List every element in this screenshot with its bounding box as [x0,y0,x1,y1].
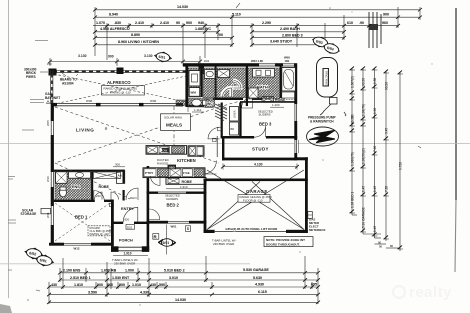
ldy bench [218,70,230,78]
water tank [317,58,338,98]
svg-text:610: 610 [347,21,353,25]
vertical dim line 5 overall 9.720 [399,72,401,251]
wc room hatch [188,99,215,108]
svg-text:1.650 RB: 1.650 RB [101,269,117,273]
svg-text:900: 900 [119,283,125,287]
svg-text:realty: realty [409,284,452,301]
dim 300 [113,166,125,168]
hall west wall (kitchen side) [221,103,223,138]
garage left wall [204,179,207,234]
svg-text:1.910: 1.910 [180,185,188,189]
stray mark [344,112,346,116]
left page edge line [8,0,10,298]
wir stripe patch [215,104,227,121]
svg-text:820: 820 [125,218,130,222]
svg-text:4.130: 4.130 [254,162,263,166]
bottom dimension block [47,256,320,304]
dim line row5 8.890 / bed3 [95,37,232,39]
svg-text:1.45: 1.45 [373,186,377,192]
entry door arc [123,207,138,222]
robe bed1 interior [94,172,121,179]
svg-text:P'TRY: P'TRY [145,171,153,175]
svg-text:STORAGE: STORAGE [21,212,37,216]
ens shower [56,172,68,184]
dim line row2 8.940 / 5.110 / 900 [95,16,420,18]
svg-text:W06: W06 [86,99,93,103]
svg-text:90.26: 90.26 [362,78,366,86]
svg-text:5.99 GARAGE: 5.99 GARAGE [362,207,366,228]
east wall window bed3 [294,104,298,121]
dim line 14.030 overall [95,9,420,11]
corridor door arc DHO [126,188,138,200]
small slash on line1 [236,3,240,8]
svg-text:STUDY: STUDY [252,147,269,152]
svg-text:1.880 WC: 1.880 WC [195,27,211,31]
svg-text:F'GE: F'GE [183,171,190,175]
bath block bottom wall segs [186,105,204,107]
svg-text:UBO: UBO [169,165,175,169]
hall/study door arc [203,161,217,175]
top dimension block [93,3,422,60]
svg-text:D01: D01 [127,225,133,229]
svg-text:1.530 ENT: 1.530 ENT [112,276,130,280]
dim texts [51,268,317,302]
shower corner [249,88,259,98]
east wall window study [294,140,298,153]
rotated dim texts [351,76,403,248]
svg-text:.90: .90 [359,21,364,25]
svg-text:430: 430 [150,283,156,287]
small horizontal ticks across lines [349,70,403,249]
robe below tub [282,92,296,98]
garage door opening line [215,230,286,232]
island bench [143,168,205,178]
dim ticks [93,8,422,47]
beam (left side vertical) [50,70,52,104]
svg-text:BED 2: BED 2 [167,203,180,208]
ens/robe divider [91,172,93,200]
ens toilet [60,188,67,197]
svg-text:14.030: 14.030 [175,298,186,302]
svg-text:90: 90 [379,245,383,249]
svg-text:BATH: BATH [257,85,268,90]
bath vanity [253,69,275,78]
dim 1.910 bed2 [166,188,206,190]
row A line (ens/rb/bed2/garage) [60,272,318,274]
svg-text:1.000: 1.000 [125,269,134,273]
svg-text:3.640 STUDY: 3.640 STUDY [270,40,293,44]
brick pier mid [117,68,124,75]
svg-text:LINEN: LINEN [233,110,237,118]
svg-text:DOORS THROUGHOUT.: DOORS THROUGHOUT. [266,242,300,246]
alfresco ceiling note box [102,86,145,96]
svg-text:230: 230 [96,194,101,198]
rooms & fixtures [21,68,326,266]
svg-text:4.930: 4.930 [255,282,264,286]
svg-text:14.030: 14.030 [177,5,188,9]
svg-text:1.98(76): 1.98(76) [362,104,366,116]
svg-text:PAVING @ -110: PAVING @ -110 [110,91,131,95]
stamp 6/93 top right [310,34,331,50]
porch front piers [111,246,119,252]
garage ceiling note box [238,195,270,203]
svg-text:METERBOX: METERBOX [309,228,325,232]
dim 1.112 leader [187,107,189,112]
bed2 top wall [147,192,207,194]
ldy east wall [201,68,203,97]
svg-text:BED 3: BED 3 [259,121,272,126]
svg-text:W06: W06 [150,99,157,103]
ubo black box [168,165,177,170]
svg-text:R/HOOD: R/HOOD [157,161,168,165]
stamp 6/91 bottom left [33,253,55,269]
svg-text:4.560 ALFRESCO: 4.560 ALFRESCO [100,27,130,31]
garage front wall right seg [286,230,308,233]
leader squiggle [320,104,331,115]
top wall window a [259,63,275,67]
ldy left column hatch [188,68,201,97]
vertical dim line 1 [351,68,353,215]
ens vanity [69,172,91,178]
extension verticals [48,282,50,304]
meter box [308,212,313,219]
hall kitchen door arc [151,176,161,186]
svg-text:5.110: 5.110 [232,13,241,17]
svg-text:NOTE: PROVIDE 2340H INT: NOTE: PROVIDE 2340H INT [266,238,305,242]
svg-text:MEALS: MEALS [166,122,182,127]
svg-text:BAYONET: BAYONET [45,96,60,100]
dim line row4 alfresco/wc/bath [95,31,218,33]
svg-text:2.100 ENS: 2.100 ENS [63,269,81,273]
ridge dash line [173,106,175,145]
wc toilet [192,99,202,106]
left wall window bed1 [50,206,54,225]
bed1 top wall [54,200,95,202]
porch right wall [147,223,150,251]
tank & compass [307,58,339,147]
bed1 door arc [94,191,105,201]
svg-text:ROBE: ROBE [99,185,110,189]
bed2 front window W01 [168,221,189,224]
vertical dim line 3 [374,68,376,238]
beam (top) with dashes [50,69,204,71]
top wall window b [283,63,294,67]
svg-text:90: 90 [176,21,180,25]
linen column boxes [230,107,239,122]
svg-text:W01: W01 [171,225,177,229]
svg-text:SLIDERS: SLIDERS [166,197,178,201]
small S mark [186,226,191,232]
svg-text:180: 180 [285,59,290,63]
svg-text:W10: W10 [46,176,50,182]
bed2 top slider gap [158,191,186,194]
entry west wall [111,200,113,210]
svg-text:BED 1: BED 1 [75,215,88,220]
washing machine [189,88,200,97]
svg-text:230 BWK OVER: 230 BWK OVER [213,242,234,246]
svg-text:1.010: 1.010 [132,283,141,287]
svg-text:2.410: 2.410 [135,21,144,25]
watermark [393,284,452,301]
entry/porch wall with door gap [111,222,123,224]
svg-text:PIERS: PIERS [26,75,36,79]
svg-text:WM: WM [191,90,197,94]
svg-text:1.112: 1.112 [194,108,202,112]
svg-text:SLIDERS: SLIDERS [259,113,271,117]
svg-text:1.98(50)(2): 1.98(50)(2) [362,148,366,164]
svg-text:ALFRESCO: ALFRESCO [107,80,131,85]
left wall window W05 [50,121,54,135]
svg-text:1.45: 1.45 [373,226,377,232]
svg-text:W03 1.80: W03 1.80 [251,59,263,63]
svg-text:900: 900 [186,21,192,25]
faint horizontal scan line upper [0,143,470,145]
bed2 west wall [147,192,150,222]
svg-text:8.890: 8.890 [131,33,140,37]
svg-text:BR: BR [231,127,235,131]
bed2 front wall [147,221,207,224]
svg-text:DW: DW [163,148,168,152]
svg-text:1.90: 1.90 [373,108,377,114]
svg-text:1.98 BED 1: 1.98 BED 1 [351,191,355,208]
svg-text:2.800 BED 3: 2.800 BED 3 [282,33,303,37]
svg-text:1.910: 1.910 [124,251,132,255]
robe slider box [262,96,274,101]
study left wall [222,139,224,161]
study door gap arc [254,126,266,137]
svg-text:KITCHEN: KITCHEN [177,158,196,163]
robe door arcs [95,192,103,200]
svg-text:ROBE: ROBE [275,98,286,102]
left outer wall [51,103,54,246]
svg-text:700: 700 [217,33,223,37]
row E line overall 14.030 [49,301,318,303]
kitchen wall hatch [176,100,186,106]
ens top wall [54,170,125,172]
faint horizontal scan line lower [0,263,250,265]
svg-text:230 BWK OVER: 230 BWK OVER [114,261,135,265]
bed1 east / porch left wall [111,200,114,247]
svg-text:2.290: 2.290 [262,21,271,25]
svg-text:.830: .830 [114,21,121,25]
svg-text:4.85x(2).85 AUTO PANEL LIFT DO: 4.85x(2).85 AUTO PANEL LIFT DOOR [225,227,278,231]
svg-text:860: 860 [107,283,113,287]
ens hatch [55,171,91,199]
svg-text:940: 940 [198,21,204,25]
svg-text:900: 900 [383,13,389,17]
svg-text:900: 900 [108,55,114,59]
stamp 6/94 top right [321,40,342,56]
svg-text:6.115: 6.115 [258,290,267,294]
svg-text:ENTRY: ENTRY [121,206,134,211]
svg-text:150: 150 [47,62,52,66]
svg-text:5.010 BED 2: 5.010 BED 2 [164,269,185,273]
svg-text:LIVING: LIVING [76,128,94,133]
svg-text:695: 695 [311,282,317,286]
svg-text:FLOOR @ -110: FLOOR @ -110 [243,198,263,202]
compass north point [307,127,339,146]
extension verticals [94,7,96,56]
svg-text:2.400 BATH: 2.400 BATH [280,27,300,31]
svg-text:ROBE: ROBE [182,180,193,184]
svg-text:2.410: 2.410 [160,21,169,25]
svg-text:PORCH: PORCH [119,238,133,242]
bath block left wall [185,66,188,107]
svg-text:900: 900 [97,283,103,287]
svg-text:90: 90 [351,114,355,118]
study bottom wall [222,158,297,161]
svg-text:4.330: 4.330 [140,290,149,294]
svg-text:ENS: ENS [72,185,80,189]
svg-text:1.810: 1.810 [74,283,83,287]
wc door arc [205,99,214,108]
porch front step lines [118,246,142,248]
bottom-left corner smudge [0,304,12,313]
pier dim line 3.130 / 3.130 [48,56,202,66]
garage dim 4.130 [223,166,297,168]
svg-text:8.960 LIVING / KITCHEN: 8.960 LIVING / KITCHEN [118,40,159,44]
garage cross bracing [207,170,304,230]
svg-text:430: 430 [51,283,57,287]
hall door arc to kitchen [208,127,220,138]
svg-text:8.940: 8.940 [109,13,118,17]
svg-text:& RAINSWITCH: & RAINSWITCH [310,119,334,123]
svg-text:6/91: 6/91 [163,241,170,245]
note box [264,237,313,247]
right dimension block [344,67,421,252]
garage top wall [204,179,308,182]
svg-text:1.980(76): 1.980(76) [351,152,355,166]
vertical dim line 4 [385,71,387,241]
porch dim 1.910 [113,254,148,256]
garage front wall left seg [204,230,215,233]
svg-text:GARAGE: GARAGE [246,189,268,194]
svg-text:5.530 GARAGE: 5.530 GARAGE [243,268,269,272]
dim line row3 small increments [93,25,398,27]
bed1 front wall [49,243,112,246]
svg-text:3.130: 3.130 [144,54,153,58]
bath/tub divider [280,66,282,98]
bath hatch [248,68,280,99]
row C line (small increments / 4.930) [49,286,318,288]
walls [49,63,308,252]
svg-text:WIR: WIR [208,178,213,182]
svg-text:7.90: 7.90 [373,146,377,152]
bathtub [282,68,296,92]
row D line (3.590/4.330/6.115) [49,294,318,296]
svg-text:80: 80 [390,244,394,248]
svg-text:W05: W05 [46,120,50,126]
bed2 door arc [149,209,160,220]
ldy/bath divider [246,66,248,106]
linen AA [117,170,125,183]
bed3 west wall [239,103,241,137]
svg-text:1.45: 1.45 [362,186,366,192]
ldy shower [189,71,200,87]
svg-text:LDY: LDY [232,83,238,87]
bed1 ceiling dashes [55,203,110,241]
step wall to garage east [294,157,308,160]
laundry hatch [203,68,246,98]
svg-text:AS1684: AS1684 [62,81,74,85]
bed3/study divider [221,136,255,139]
svg-text:DHO: DHO [130,196,137,200]
svg-text:3.130: 3.130 [78,54,87,58]
svg-text:WC: WC [207,102,213,106]
door D01 box [126,225,135,230]
vertical dim line 2 [362,68,364,234]
svg-text:3.010: 3.010 [169,276,178,280]
svg-text:W12: W12 [74,247,80,251]
svg-text:1.30: 1.30 [373,78,377,84]
pump box [330,98,338,105]
svg-text:5000L TANK: 5000L TANK [324,71,328,86]
svg-text:7.20: 7.20 [385,186,389,192]
east outer wall [294,66,297,158]
tick marks on line1 [350,67,402,250]
study window marks [298,140,300,153]
svg-text:960: 960 [382,21,388,25]
svg-text:1.367(2): 1.367(2) [351,76,355,88]
svg-text:1.400: 1.400 [272,103,280,107]
alfresco [24,54,204,104]
left wall window ens [50,172,54,187]
svg-text:D02: D02 [204,59,210,63]
wc/ldy divider [215,66,217,98]
bed2 robe row [166,178,206,185]
svg-text:2.510 BED 1: 2.510 BED 1 [70,276,91,280]
bath block NW corner post [199,65,205,74]
left margin tick marks [8,41,48,292]
row B line (bed1/ent/5.630) [60,279,318,281]
alfresco diagonal dashes [54,74,196,104]
D mark box [110,203,114,206]
svg-text:PAVING @ -110: PAVING @ -110 [90,232,110,236]
svg-text:SOLAR HWU: SOLAR HWU [164,116,182,120]
kitchen bench right towers [188,146,204,156]
svg-text:90.26: 90.26 [385,82,389,90]
svg-text:9.720: 9.720 [399,162,403,170]
robe strip line bed3 [240,101,297,103]
svg-text:300: 300 [115,163,120,167]
svg-text:3.45: 3.45 [385,128,389,134]
kitchen bench [146,146,187,155]
garage east wall [305,157,308,233]
dim ticks [47,271,320,304]
bed1 front window W12 [64,242,91,246]
stamps [23,34,342,268]
stamp 6/91 above alfresco [154,51,172,64]
dim texts [96,5,389,44]
svg-text:3.590: 3.590 [88,290,97,294]
meals solar box [161,114,191,131]
bed3 door arc [242,97,253,108]
brick pier left [49,69,57,76]
robe/hall wall [123,170,125,184]
tank label [323,68,330,87]
dim line row6 living/kitchen / study [95,44,232,46]
svg-text:1.070: 1.070 [96,21,105,25]
svg-text:590: 590 [159,283,165,287]
stamp 6/91 near porch [159,225,176,255]
right page edge line [455,8,457,200]
living raked ceiling dashes [55,101,240,199]
ldy door arcs [222,88,231,97]
bottom connector lines [352,214,357,216]
svg-text:5.630: 5.630 [253,276,262,280]
stamp 6/92 bottom left [23,246,45,262]
bath block top wall [183,63,297,66]
